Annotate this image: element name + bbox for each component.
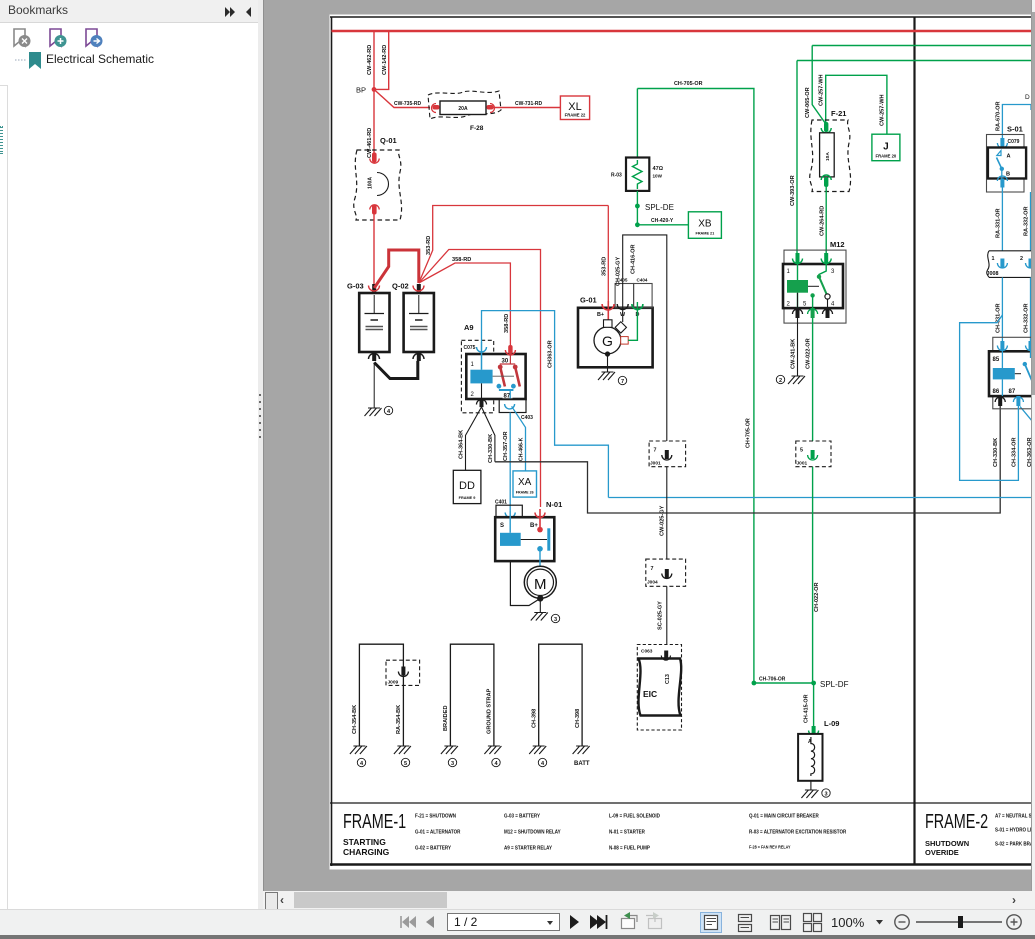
- wire CH-334-OR: [960, 315, 1019, 480]
- wire battery jumper cable: [374, 250, 419, 288]
- legend frame 2 column: [995, 813, 1035, 848]
- wire green bus 1: [812, 45, 1035, 47]
- svg-text:CH-334-OR: CH-334-OR: [1011, 437, 1017, 467]
- svg-text:OVERIDE: OVERIDE: [925, 848, 959, 857]
- wire 358-RD to starter: [419, 250, 541, 508]
- svg-text:SHUTDOWN: SHUTDOWN: [925, 839, 969, 848]
- svg-text:GROUND STRAP: GROUND STRAP: [487, 688, 493, 734]
- svg-text:G-03: G-03: [347, 282, 364, 291]
- wire CH-331-OR: [995, 277, 1002, 342]
- svg-text:100%: 100%: [831, 915, 865, 930]
- svg-text:CH-025-GY: CH-025-GY: [616, 257, 622, 286]
- svg-text:CH-416-OR: CH-416-OR: [631, 244, 637, 274]
- svg-text:A7 = NEUTRAL START: A7 = NEUTRAL START: [995, 813, 1035, 820]
- wire CW-022-OR: [806, 318, 813, 441]
- right edge scrollbar sliver: [1031, 0, 1035, 891]
- connector J004 pin 7: [646, 559, 686, 586]
- svg-text:L-09: L-09: [824, 719, 839, 728]
- wire CH-330-BK: [482, 407, 495, 463]
- svg-text:FRAME 20: FRAME 20: [876, 154, 897, 159]
- svg-text:C075: C075: [464, 345, 476, 351]
- node SPL-DF: [752, 677, 849, 690]
- svg-text:CH-022-OR: CH-022-OR: [814, 582, 820, 612]
- relay M12: [783, 240, 846, 323]
- wire red bus BP: [332, 30, 1035, 32]
- legend column 1: [415, 813, 461, 852]
- svg-text:100A: 100A: [368, 177, 374, 189]
- next view (disabled): [646, 912, 662, 929]
- page box: [448, 914, 560, 931]
- svg-text:CH-466-K: CH-466-K: [519, 437, 525, 461]
- svg-text:F-28: F-28: [470, 125, 484, 132]
- svg-text:M12 = SHUTDOWN RELAY: M12 = SHUTDOWN RELAY: [504, 829, 561, 836]
- wire 353-RD to alternator: [602, 206, 609, 302]
- off-page J FRAME 20: [872, 134, 900, 161]
- connector J001 pin 5: [796, 441, 831, 467]
- svg-text:3: 3: [824, 792, 827, 798]
- svg-text:G-02 = BATTERY: G-02 = BATTERY: [415, 845, 451, 852]
- legend FRAME-1 title: [343, 810, 406, 857]
- svg-text:F-21: F-21: [831, 109, 846, 118]
- svg-text:C063: C063: [641, 649, 653, 655]
- svg-text:RA-331-OR: RA-331-OR: [995, 208, 1001, 238]
- wire CW-461-RD: [367, 89, 374, 158]
- svg-text:10W: 10W: [653, 174, 663, 179]
- svg-text:358-RD: 358-RD: [452, 257, 471, 263]
- fuel solenoid L-09: [798, 719, 839, 790]
- connector C063: [641, 649, 671, 661]
- wire CW-257-WH: [819, 74, 887, 134]
- svg-text:2: 2: [779, 378, 782, 384]
- svg-text:2: 2: [1020, 256, 1023, 262]
- view mode: two-up: [771, 916, 791, 930]
- svg-text:CW-142-RD: CW-142-RD: [382, 45, 388, 75]
- svg-text:Q-01 = MAIN CIRCUIT BREAKER: Q-01 = MAIN CIRCUIT BREAKER: [749, 813, 819, 820]
- wire green bus 2: [797, 60, 1035, 62]
- svg-text:CH-354-BK: CH-354-BK: [352, 705, 358, 734]
- wire CH-416-OR: [628, 244, 637, 340]
- battery Q-02: [392, 282, 434, 353]
- wire CW-025-GY: [660, 467, 667, 559]
- svg-text:M12: M12: [830, 240, 845, 249]
- svg-text:CH-357-OR: CH-357-OR: [503, 431, 509, 461]
- ground strap pillar 3: [529, 644, 590, 767]
- wire SC-025-GY: [658, 586, 667, 644]
- tree item: [14, 50, 44, 70]
- svg-text:CW-393-OR: CW-393-OR: [790, 175, 796, 206]
- bottom strip: [0, 935, 1035, 939]
- svg-text:A9 = STARTER RELAY: A9 = STARTER RELAY: [504, 845, 552, 852]
- starter N-01: [495, 500, 562, 567]
- document background: [263, 0, 1035, 910]
- svg-text:B+: B+: [530, 523, 538, 529]
- svg-text:XL: XL: [568, 101, 581, 113]
- svg-text:C13: C13: [665, 674, 671, 684]
- wire RA-331-OR: [995, 187, 1002, 251]
- sidebar: [0, 0, 258, 910]
- svg-text:CW-462-RD: CW-462-RD: [367, 45, 373, 75]
- bottom toolbar: [0, 909, 1035, 936]
- svg-text:FRAME-1: FRAME-1: [343, 810, 406, 833]
- svg-text:Q-01: Q-01: [380, 136, 397, 145]
- wire battery negative cable: [369, 352, 425, 408]
- sidebar inner lines: [7, 85, 8, 910]
- svg-text:87: 87: [1009, 389, 1016, 395]
- svg-text:Q-02: Q-02: [392, 282, 409, 291]
- svg-text:N-01: N-01: [546, 500, 562, 509]
- wire CW-065-OR: [805, 46, 826, 125]
- wire RA-332-OR: [1024, 192, 1031, 251]
- svg-text:FRAME-2: FRAME-2: [925, 810, 988, 833]
- svg-text:STARTING: STARTING: [343, 837, 386, 847]
- connector C401: [495, 500, 522, 518]
- svg-text:S: S: [500, 523, 504, 529]
- svg-text:10A: 10A: [825, 152, 831, 161]
- wire CH-363-OR long run: [608, 407, 1033, 498]
- svg-text:BATT: BATT: [574, 761, 590, 767]
- svg-text:XA: XA: [518, 477, 532, 488]
- svg-text:CH-398: CH-398: [532, 709, 538, 728]
- svg-text:5: 5: [404, 761, 407, 767]
- svg-text:J008: J008: [987, 271, 999, 277]
- off-page DD FRAME 9: [453, 470, 481, 503]
- svg-text:CH-415-OR: CH-415-OR: [804, 694, 810, 723]
- svg-text:CH-705-OR: CH-705-OR: [674, 81, 703, 87]
- splitter: [258, 0, 264, 910]
- ground strap pillar 2: [441, 644, 502, 767]
- svg-text:3: 3: [451, 761, 454, 767]
- ground 4 batteries: [365, 406, 393, 416]
- svg-text:RA-354-BK: RA-354-BK: [396, 705, 402, 734]
- svg-text:CW-257-WH: CW-257-WH: [880, 94, 886, 126]
- svg-text:1: 1: [992, 256, 995, 262]
- next page: [570, 915, 579, 929]
- wire CH-357-OR: [503, 413, 510, 512]
- svg-text:CW-065-OR: CW-065-OR: [805, 87, 811, 118]
- svg-text:5: 5: [800, 448, 803, 454]
- wire RA-670-OR: [995, 94, 1031, 139]
- battery G-03: [347, 282, 390, 353]
- wire CW-462-RD: [367, 31, 374, 89]
- svg-text:20A: 20A: [458, 106, 468, 112]
- svg-text:358-RD: 358-RD: [504, 314, 510, 333]
- legend FRAME-2 title: [925, 810, 988, 857]
- svg-text:M: M: [534, 576, 547, 593]
- wire CH-466-K: [512, 406, 526, 471]
- wire 353-RD: [419, 206, 609, 284]
- module EIC C13: [637, 645, 681, 731]
- wire 358-RD to starter relay: [419, 263, 511, 348]
- svg-text:7: 7: [621, 379, 624, 385]
- wire CW-735-RD: [374, 89, 430, 107]
- svg-text:CH-420-Y: CH-420-Y: [651, 218, 674, 224]
- svg-text:CHARGING: CHARGING: [343, 847, 390, 857]
- svg-text:BP: BP: [356, 86, 366, 95]
- ground strap pillar 1: [350, 644, 420, 767]
- switch S-01: [987, 125, 1027, 193]
- node SPL-DE: [635, 203, 674, 227]
- svg-text:B+: B+: [597, 312, 604, 318]
- svg-text:CH-398: CH-398: [575, 709, 581, 728]
- svg-text:353-RD: 353-RD: [602, 257, 608, 276]
- connector J008: [987, 251, 1035, 278]
- svg-text:F-21 = SHUTDOWN: F-21 = SHUTDOWN: [415, 813, 456, 820]
- svg-text:7: 7: [654, 448, 657, 454]
- svg-text:C401: C401: [495, 500, 507, 506]
- wire CH-022-OR: [813, 467, 820, 683]
- svg-text:CW-257-WH: CW-257-WH: [819, 74, 825, 106]
- connector C403: [499, 399, 533, 421]
- svg-text:FRAME 22: FRAME 22: [565, 113, 586, 118]
- previous view: [622, 912, 638, 929]
- svg-text:CW-735-RD: CW-735-RD: [394, 101, 422, 107]
- relay A9: [461, 323, 525, 413]
- svg-text:85: 85: [993, 357, 1000, 363]
- first page (grey): [402, 916, 416, 928]
- svg-text:CW-025-GY: CW-025-GY: [660, 505, 666, 536]
- svg-text:N-08 = FUEL PUMP: N-08 = FUEL PUMP: [609, 845, 650, 852]
- svg-text:J001: J001: [797, 461, 808, 467]
- svg-text:FRAME 21: FRAME 21: [696, 232, 715, 236]
- view mode: two-up continuous: [804, 914, 822, 932]
- wire CW-731-RD: [493, 101, 560, 108]
- wire CH-330-BK long run: [495, 397, 1000, 514]
- svg-text:S-02 = PARK BRAKE: S-02 = PARK BRAKE: [995, 841, 1035, 848]
- wire CH-332-OR: [1024, 277, 1031, 342]
- connector J001 pin 7: [649, 441, 686, 467]
- svg-text:3: 3: [554, 617, 557, 623]
- last page: [590, 915, 606, 929]
- legend column 2: [504, 813, 561, 852]
- wire CW-142-RD: [374, 31, 389, 89]
- alternator G-01: [578, 278, 653, 368]
- wire CW-241-BK: [791, 318, 798, 376]
- frame border page 1: [330, 17, 1035, 866]
- svg-text:S-01 = HYDRO LEVER: S-01 = HYDRO LEVER: [995, 827, 1035, 834]
- svg-text:CH-706-OR: CH-706-OR: [759, 677, 786, 683]
- svg-text:XB: XB: [698, 219, 712, 230]
- svg-text:C079: C079: [1008, 139, 1020, 145]
- svg-text:86: 86: [993, 389, 1000, 395]
- svg-text:R-03: R-03: [611, 173, 622, 179]
- svg-text:SPL-DF: SPL-DF: [820, 680, 849, 689]
- off-page XA FRAME 26: [513, 471, 537, 497]
- svg-text:D: D: [1025, 94, 1030, 101]
- wire CW-264-RD: [820, 187, 827, 256]
- svg-text:B: B: [1006, 172, 1010, 178]
- svg-text:J009: J009: [388, 680, 399, 686]
- relay shutdown override: [989, 337, 1035, 409]
- bookmark toolbar icons: [12, 28, 112, 50]
- svg-text:CW-461-RD: CW-461-RD: [367, 128, 373, 158]
- fuse F-28 20A: [428, 91, 501, 132]
- ground 7 alternator: [598, 351, 627, 385]
- horizontal scrollbar row: [263, 891, 1035, 910]
- svg-text:G-03 = BATTERY: G-03 = BATTERY: [504, 813, 540, 820]
- wire CH-415-OR: [804, 683, 814, 727]
- svg-text:CH363-OR: CH363-OR: [548, 340, 554, 368]
- svg-text:CW-241-BK: CW-241-BK: [791, 339, 797, 369]
- wire CW-393-OR: [790, 61, 797, 257]
- svg-text:353-RD: 353-RD: [426, 236, 432, 255]
- svg-text:S-01: S-01: [1007, 125, 1023, 134]
- svg-text:C403: C403: [521, 415, 533, 421]
- svg-text:J: J: [883, 142, 889, 153]
- svg-text:1 / 2: 1 / 2: [454, 915, 478, 929]
- svg-text:EIC: EIC: [643, 689, 657, 699]
- view mode: single (active): [701, 913, 722, 933]
- svg-text:CH-330-BK: CH-330-BK: [488, 434, 494, 463]
- off-page XB FRAME 21: [688, 212, 721, 239]
- svg-text:DD: DD: [459, 480, 475, 492]
- svg-text:CW-022-OR: CW-022-OR: [806, 338, 812, 369]
- svg-text:CH-330-BK: CH-330-BK: [993, 438, 999, 467]
- off-page XL FRAME 22: [560, 96, 589, 120]
- svg-text:R-03 = ALTERNATOR EXCITATION R: R-03 = ALTERNATOR EXCITATION RESISTOR: [749, 829, 846, 836]
- svg-text:CW-731-RD: CW-731-RD: [515, 101, 543, 107]
- svg-text:RA-670-OR: RA-670-OR: [995, 101, 1001, 131]
- legend column 4: [749, 813, 846, 850]
- svg-text:7: 7: [651, 566, 654, 572]
- wire CH-705-OR: [637, 81, 754, 683]
- svg-text:47Ω: 47Ω: [653, 166, 664, 172]
- wire CH-364-BK: [459, 399, 487, 470]
- svg-text:SC-025-GY: SC-025-GY: [658, 601, 664, 630]
- svg-text:RA-332-OR: RA-332-OR: [1024, 206, 1030, 236]
- svg-text:G: G: [602, 333, 613, 349]
- svg-text:CH-364-BK: CH-364-BK: [459, 430, 465, 459]
- legend column 3: [609, 813, 660, 852]
- motor M starter: [510, 561, 556, 605]
- svg-text:J004: J004: [647, 580, 658, 586]
- prev page: [426, 916, 434, 928]
- white paper: [330, 15, 1035, 870]
- ground 3 starter: [531, 600, 560, 623]
- wire CH-025-GY: [616, 235, 667, 441]
- circuit breaker Q-01 100A: [354, 136, 402, 284]
- svg-text:FRAME 9: FRAME 9: [459, 496, 476, 500]
- svg-text:A: A: [1007, 154, 1011, 160]
- ground 3 fuel solenoid: [801, 789, 830, 798]
- svg-text:G-01: G-01: [580, 296, 597, 305]
- svg-text:F-28 = FAN REV RELAY: F-28 = FAN REV RELAY: [749, 844, 791, 850]
- svg-text:N-01 = STARTER: N-01 = STARTER: [609, 829, 645, 836]
- wire CH363-OR from relay A9: [482, 311, 609, 498]
- svg-text:A9: A9: [464, 323, 474, 332]
- svg-text:CH+705-OR: CH+705-OR: [746, 418, 752, 448]
- node BP: [356, 86, 376, 95]
- view mode: continuous: [739, 915, 752, 932]
- svg-text:FRAME 26: FRAME 26: [516, 491, 534, 495]
- wire CH-420-Y: [637, 218, 688, 225]
- svg-text:BRAIDED: BRAIDED: [443, 706, 449, 731]
- fuse F-21 10A: [810, 109, 851, 192]
- svg-text:SPL-DE: SPL-DE: [645, 203, 674, 212]
- ground 2 shutdown relay: [776, 375, 805, 384]
- svg-text:L-09 = FUEL SOLENOID: L-09 = FUEL SOLENOID: [609, 813, 660, 820]
- svg-text:G-01 = ALTERNATOR: G-01 = ALTERNATOR: [415, 829, 461, 836]
- resistor R-03 47ohm 10W: [611, 89, 664, 207]
- left edge tick: [0, 126, 3, 154]
- svg-text:CW-264-RD: CW-264-RD: [820, 206, 826, 236]
- svg-text:C404: C404: [637, 278, 648, 283]
- svg-text:CH-332-OR: CH-332-OR: [1024, 303, 1030, 333]
- svg-text:J001: J001: [650, 461, 661, 467]
